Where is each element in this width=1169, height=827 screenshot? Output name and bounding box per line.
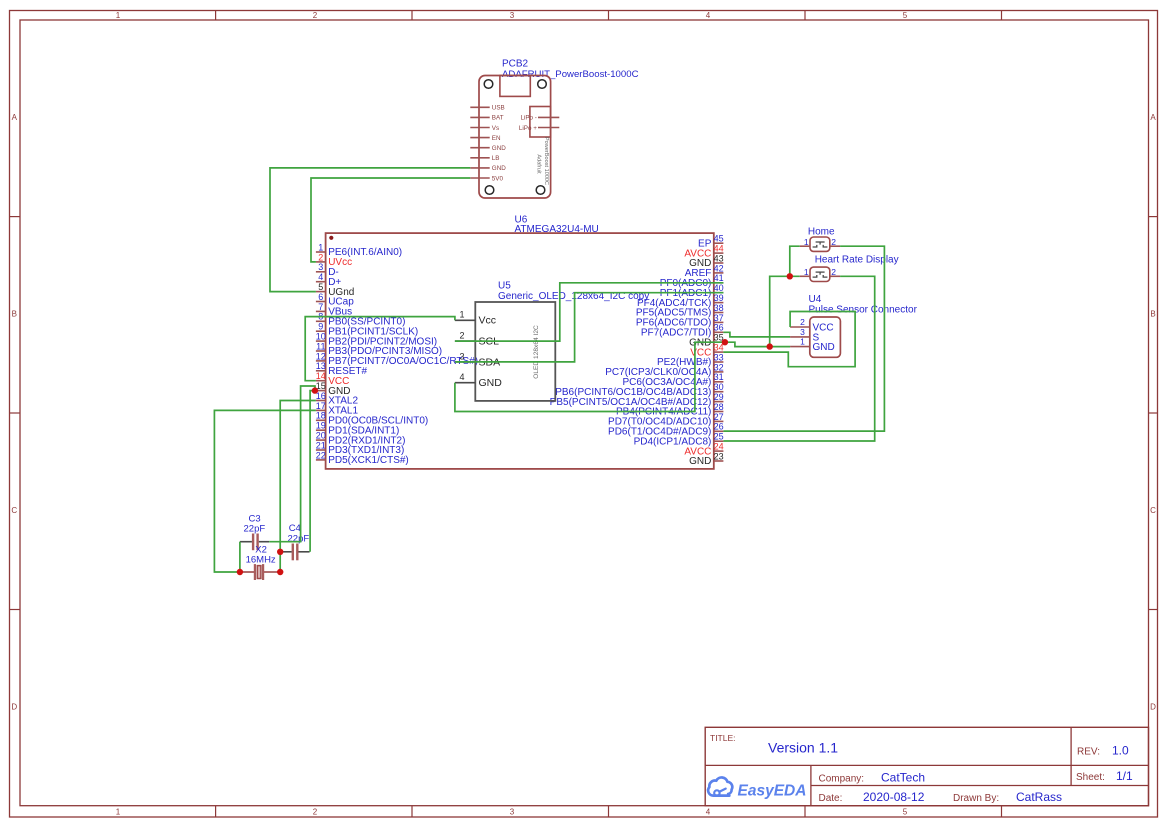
svg-text:16MHz: 16MHz [246,554,276,565]
pushbutton Heart Rate Display body [810,267,830,281]
svg-text:LiPo +: LiPo + [519,125,537,132]
svg-text:25: 25 [714,432,724,442]
U6 pin 43 GND [689,253,723,269]
svg-text:U5: U5 [498,280,511,291]
svg-text:4: 4 [318,272,323,282]
svg-text:GND: GND [492,165,506,172]
junction U6 pin35 GND [722,339,728,345]
ruler ticks left/right [10,217,1158,610]
U6 pin 29 PB5(PCINT5/OC1A/OC4B#/ADC12) [550,392,724,408]
svg-text:Drawn By:: Drawn By: [953,793,999,804]
Home pin 1 [800,237,810,247]
wire U6 pin17 XTAL1 to crystal left [214,410,316,572]
Heart Rate Display pin 2 [830,267,840,277]
module PCB2 ADAFRUIT_PowerBoost-1000C body [479,76,551,199]
U6 pin 10 PB2(PDI/PCINT2/MOSI) [316,332,437,348]
svg-text:CatRass: CatRass [1016,790,1062,804]
svg-text:D: D [1150,702,1156,711]
U6 pin 19 PD1(SDA/INT1) [316,421,400,437]
svg-text:38: 38 [714,303,724,313]
crystal X2 designator [255,545,267,556]
op-chip U6 ATMEGA32U4-MU body [326,233,714,469]
svg-text:PowerBoost 1000C: PowerBoost 1000C [543,137,549,185]
wire Heart Rate Display pin1 to GND net [770,276,800,346]
PCB2 vertical silk texts [535,137,549,185]
X2 value 16MHz [246,554,276,565]
svg-text:GND: GND [689,456,711,467]
pushbutton Home switch glyph [813,242,828,247]
wire U6 pin15 GND to C4 right [310,391,316,552]
svg-text:45: 45 [714,234,724,244]
U6 pin 36 PF7(ADC7/TDI) [641,323,724,339]
U6 pin 2 UVcc [316,252,352,268]
svg-text:2020-08-12: 2020-08-12 [863,790,925,804]
svg-text:OLED 128x64 I2C: OLED 128x64 I2C [533,325,540,379]
svg-text:6: 6 [318,292,323,302]
svg-text:36: 36 [714,323,724,333]
svg-text:24: 24 [714,442,724,452]
svg-text:2: 2 [318,252,323,262]
U6 pin 18 PD0(OC0B/SCL/INT0) [316,411,428,427]
svg-text:Company:: Company: [819,774,865,785]
wire U5 GND to U6 pin35 GND and U4 pin1 GND [455,342,790,411]
junction C4 left [277,549,283,555]
U6 pin 34 VCC [690,343,723,359]
U5 pin 1 Vcc [455,310,496,327]
svg-text:1: 1 [800,337,805,347]
svg-text:1.0: 1.0 [1112,744,1129,758]
svg-text:B: B [12,309,17,318]
pushbutton Heart Rate Display switch glyph [813,272,828,277]
svg-text:TITLE:: TITLE: [710,733,736,743]
U6 pin 14 VCC [316,371,350,387]
U6 pin 3 D- [316,262,339,278]
Sheet label [1076,772,1105,783]
svg-text:2: 2 [831,267,836,277]
U6 pin 8 PB0(SS/PCINT0) [316,312,406,328]
U6 pin 9 PB1(PCINT1/SCLK) [316,322,418,338]
U4 pin 1 GND [790,337,835,353]
U6 pin 22 PD5(XCK1/CTS#) [316,450,409,466]
C4 value 22pF [288,534,310,545]
svg-text:U4: U4 [809,294,822,305]
svg-text:3: 3 [800,327,805,337]
svg-text:PD5(XCK1/CTS#): PD5(XCK1/CTS#) [328,455,409,466]
U6 pin 37 PF6(ADC6/TDO) [636,313,724,329]
U6 pin 35 GND [689,333,723,349]
svg-text:B: B [1150,309,1155,318]
svg-text:11: 11 [316,341,325,351]
U5 pin 4 GND [455,372,502,389]
svg-text:30: 30 [714,382,724,392]
wire U6 pin15 GND to C3 right [269,386,315,542]
svg-text:Adafruit: Adafruit [535,154,541,174]
U6 pin 25 PD4(ICP1/ADC8) [634,432,724,448]
svg-text:EasyEDA: EasyEDA [738,782,807,799]
svg-text:22: 22 [316,450,326,460]
svg-text:21: 21 [316,440,326,450]
svg-text:12: 12 [316,351,326,361]
U4 value Pulse Sensor Connector [809,305,918,316]
svg-text:C: C [1150,506,1156,515]
svg-text:22pF: 22pF [288,534,310,545]
wire Heart Rate Display pin2 to U6 pin25 PD4 [723,276,874,441]
designator U4 label [809,294,822,305]
U6 pin 11 PB3(PDO/PCINT3/MISO) [316,341,442,357]
wire PCB2 GND to U6 pin5 UGnd [270,168,470,292]
Heart Rate Display label [815,254,899,265]
svg-text:3: 3 [459,351,464,361]
U4 pin 3 S [790,327,819,343]
ruler ticks top/bottom [216,11,1002,818]
U6 pin 38 PF5(ADC5/TMS) [636,303,724,319]
U6 pin 32 PC7(ICP3/CLK0/OC4A) [605,362,723,378]
title block frame [705,727,1148,805]
capacitor C4 designator [289,523,301,534]
Drawn By value CatRass [1016,790,1062,804]
svg-text:Sheet:: Sheet: [1076,772,1105,783]
Company label [819,774,865,785]
display U5 Generic_OLED body [475,302,555,401]
capacitor C3 symbol [240,534,269,551]
svg-text:32: 32 [714,362,724,372]
U5 vertical text OLED 128x64 I2C [533,325,540,379]
wire U5 SDA to U6 pin40 PF1 [455,293,724,362]
wire U6 pin36 PF7 to U4 pin3 S [723,332,790,337]
svg-text:2: 2 [831,237,836,247]
svg-text:2: 2 [313,808,318,817]
svg-text:22pF: 22pF [244,524,266,535]
Date value 2020-08-12 [863,790,925,804]
svg-text:39: 39 [714,293,724,303]
svg-text:20: 20 [316,431,326,441]
U6 value ATMEGA32U4-MU [515,224,599,235]
U6 pin 23 GND [689,451,723,467]
U6 pin 6 UCap [316,292,354,308]
svg-text:5V0: 5V0 [492,175,504,182]
C3 value 22pF [244,524,266,535]
svg-text:1: 1 [804,237,809,247]
U6 pin 39 PF4(ADC4/TCK) [637,293,724,309]
svg-text:2: 2 [800,317,805,327]
svg-text:33: 33 [714,352,724,362]
title text Version 1.1 [768,740,838,756]
svg-text:3: 3 [510,11,515,20]
U6 pin 7 VBus [316,302,352,318]
U6 pin 27 PD7(T0/OC4D/ADC10) [608,412,724,428]
Company value CatTech [881,771,925,785]
svg-text:3: 3 [510,808,515,817]
REV value 1.0 [1112,744,1129,758]
svg-text:Home: Home [808,226,835,237]
svg-text:GND: GND [479,377,503,389]
Date label [819,793,843,804]
svg-text:5: 5 [903,11,908,20]
svg-text:4: 4 [459,372,464,382]
svg-text:26: 26 [714,422,724,432]
wire PCB2 5V0 to U6 pin2 UVcc [311,178,470,262]
PCB2 value ADAFRUIT_PowerBoost-1000C [502,69,639,80]
svg-text:14: 14 [316,371,326,381]
capacitor C3 designator [249,514,261,525]
U6 pin 17 XTAL1 [316,401,359,417]
U6 pin 5 UGnd [316,282,354,298]
svg-text:9: 9 [318,322,323,332]
designator U6 label [515,215,528,226]
junction HRD pin1 [787,273,793,279]
svg-text:40: 40 [714,283,724,293]
junction GND-HRD [767,343,773,349]
junction crystal left [237,569,243,575]
Home label [808,226,835,237]
svg-text:PCB2: PCB2 [502,59,529,70]
ruler column numbers [116,11,908,816]
svg-text:A: A [12,113,18,122]
svg-text:1: 1 [116,808,121,817]
svg-text:A: A [1150,113,1156,122]
svg-text:19: 19 [316,421,326,431]
connector U4 body [810,317,841,357]
Home pin 2 [830,237,840,247]
svg-text:USB: USB [492,105,505,112]
svg-text:Vs: Vs [492,125,499,132]
U6 pin 33 PE2(HWB#) [657,352,724,368]
junction crystal right [277,569,283,575]
ruler row letters [11,113,1156,712]
svg-text:27: 27 [714,412,724,422]
designator U5 label [498,280,511,291]
svg-text:41: 41 [714,273,724,283]
wire U6 pin16 XTAL2 to crystal right [280,401,316,573]
svg-text:Heart Rate Display: Heart Rate Display [815,254,899,265]
svg-text:2: 2 [459,331,464,341]
svg-text:18: 18 [316,411,326,421]
U6 pin 44 AVCC [684,244,723,260]
svg-text:4: 4 [706,11,711,20]
U5 pin 2 SCL [455,331,499,348]
U6 pin 4 D+ [316,272,342,288]
svg-text:1: 1 [459,310,464,320]
svg-text:44: 44 [714,244,724,254]
svg-text:EN: EN [492,135,501,142]
pushbutton Home body [810,237,830,251]
svg-text:5: 5 [903,808,908,817]
crystal X2 symbol [240,564,280,580]
svg-text:LiPo -: LiPo - [520,115,536,122]
U6 pin 1 PE6(INT.6/AIN0) [316,242,402,258]
svg-text:C: C [11,506,17,515]
U6 pin 16 XTAL2 [316,391,359,407]
svg-text:2: 2 [313,11,318,20]
PCB2 left pins USB BAT Vs EN GND LB GND 5V0 [470,105,506,183]
capacitor C4 symbol [280,544,309,561]
U6 pin 15 GND [316,381,351,397]
svg-text:BAT: BAT [492,115,504,122]
svg-text:10: 10 [316,332,326,342]
svg-text:Pulse Sensor Connector: Pulse Sensor Connector [809,305,918,316]
wire Home pin1 to Heart Rate Display pin1 [790,246,800,276]
U6 pin 24 AVCC [684,442,723,458]
svg-text:1/1: 1/1 [1116,769,1133,783]
Drawn By label [953,793,999,804]
PCB2 mounting holes [484,80,546,195]
svg-text:43: 43 [714,253,724,263]
U6 pin 13 RESET# [316,361,368,377]
svg-text:13: 13 [316,361,326,371]
svg-text:4: 4 [706,808,711,817]
svg-text:1: 1 [804,267,809,277]
Heart Rate Display pin 1 [800,267,810,277]
svg-text:GND: GND [813,342,835,353]
U6 pin 40 PF1(ADC1) [660,283,724,299]
svg-text:31: 31 [714,372,724,382]
svg-text:5: 5 [318,282,323,292]
U5 value Generic_OLED_128x64_I2C copy [498,291,649,302]
svg-text:23: 23 [714,451,724,461]
svg-text:7: 7 [318,302,323,312]
U6 pin 42 AREF [685,263,724,279]
wire U6 pin34 VCC to U4 pin2 VCC [723,312,855,367]
svg-text:3: 3 [318,262,323,272]
U6 pin 20 PD2(RXD1/INT2) [316,431,406,447]
wire U6 pin14 VCC to U5 pin1 Vcc [305,317,455,381]
U6 pin 28 PB4(PCINT4/ADC11) [616,402,724,418]
svg-text:37: 37 [714,313,724,323]
U5 pin 3 SDA [455,351,500,368]
wire C3 left to crystal left junction [239,542,241,572]
U6 pin 45 EP [698,234,724,250]
svg-text:REV:: REV: [1077,747,1100,758]
U6 pin1 indicator dot [329,236,333,240]
svg-text:CatTech: CatTech [881,771,925,785]
svg-text:1: 1 [318,242,323,252]
U6 pin 30 PB6(PCINT6/OC1B/OC4B/ADC13) [555,382,723,398]
svg-text:42: 42 [714,263,724,273]
svg-text:ADAFRUIT_PowerBoost-1000C: ADAFRUIT_PowerBoost-1000C [502,69,639,80]
svg-text:Date:: Date: [819,793,843,804]
U6 pin 21 PD3(TXD1/INT3) [316,440,405,456]
svg-text:Version 1.1: Version 1.1 [768,740,838,756]
svg-text:17: 17 [316,401,326,411]
svg-text:34: 34 [714,343,724,353]
wire Home pin2 to U6 pin26 PD6 [723,246,884,431]
junction U6 pin15 GND [312,387,318,393]
U6 pin 31 PC6(OC3A/OC4A#) [622,372,723,388]
REV label [1077,747,1100,758]
Sheet value 1/1 [1116,769,1133,783]
svg-text:29: 29 [714,392,724,402]
svg-text:Vcc: Vcc [479,315,497,327]
svg-text:LB: LB [492,155,500,162]
wire U5 SCL to U6 pin41 PF0 [455,283,724,341]
svg-text:D: D [11,702,17,711]
U6 pin 41 PF0(ADC0) [660,273,724,289]
svg-text:28: 28 [714,402,724,412]
PCB2 right pins LiPo- LiPo+ [519,115,559,132]
U4 pin 2 VCC [790,317,834,333]
U6 pin 12 PB7(PCINT7/OC0A/OC1C/RTS#) [316,351,478,367]
U6 pin 26 PD6(T1/OC4D#/ADC9) [608,422,724,438]
designator PCB2 label [502,59,529,70]
svg-text:GND: GND [492,145,506,152]
EasyEDA logo [708,777,806,799]
svg-text:1: 1 [116,11,121,20]
title block TITLE label [710,733,736,743]
